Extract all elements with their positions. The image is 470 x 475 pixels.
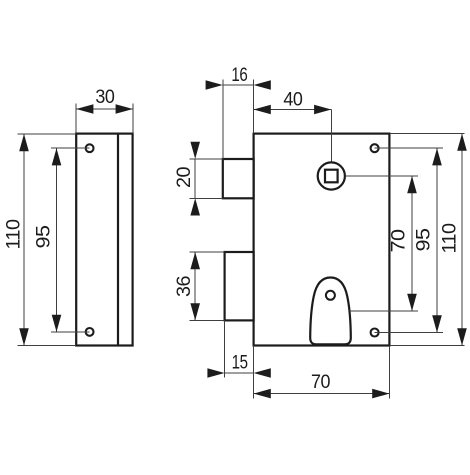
dim 16 extension lines — [223, 80, 254, 159]
dim 20 arrow top outside — [190, 142, 200, 159]
dim 110 right arrow bottom — [457, 328, 467, 345]
dim 36 arrow bottom — [190, 303, 200, 320]
dim 15 arrow left outside — [207, 368, 224, 378]
svg-text:15: 15 — [232, 353, 248, 374]
dim 16 arrow left outside — [206, 80, 223, 90]
dim 70 right arrow top — [407, 176, 417, 193]
dim 95 left line — [56, 148, 58, 332]
lock body outline — [254, 134, 390, 346]
bolt box (lower left protrusion) — [225, 252, 254, 320]
dim 70 right arrow bottom — [407, 294, 417, 311]
dim 95 left extension lines — [51, 148, 90, 332]
dim 36 arrow top — [190, 252, 200, 269]
dim 30 arrow right — [116, 104, 133, 114]
dim 40 line — [254, 109, 332, 111]
svg-text:70: 70 — [389, 230, 410, 253]
spindle center line right — [346, 175, 419, 177]
body screw hole bottom line — [375, 332, 443, 334]
svg-text:110: 110 — [4, 220, 25, 250]
dim 36 line — [194, 252, 196, 320]
faceplate outline — [76, 134, 132, 346]
dim 95 left arrow top — [52, 148, 62, 165]
dim 36 extension lines — [190, 252, 225, 320]
svg-text:70: 70 — [311, 372, 330, 393]
dim 40 arrow left — [254, 105, 271, 115]
dim 15 arrow right outside — [254, 368, 271, 378]
faceplate fold line — [117, 134, 119, 346]
dim 110 right arrow top — [457, 134, 467, 151]
dim 20 extension lines — [190, 159, 223, 198]
svg-text:16: 16 — [231, 65, 247, 86]
body screw hole bottom — [371, 329, 379, 337]
dim 110 left arrow bottom — [19, 328, 29, 345]
spindle square — [325, 170, 338, 183]
spindle leader line — [330, 110, 332, 162]
svg-text:30: 30 — [95, 87, 114, 108]
svg-text:40: 40 — [283, 90, 302, 111]
dim 110 right extension lines — [390, 134, 465, 346]
dim 95 right arrow top — [432, 148, 442, 165]
spindle hole circle — [318, 162, 345, 189]
dim 30 line — [76, 108, 133, 110]
body screw hole top — [371, 144, 379, 152]
dim 15 extension lines — [225, 320, 254, 398]
svg-text:95: 95 — [414, 229, 435, 252]
dim 16 line — [223, 84, 254, 86]
keyhole circle — [326, 291, 335, 300]
dim 70 bottom extension line right — [388, 346, 390, 399]
dim 95 left arrow bottom — [52, 315, 62, 332]
dim 16 arrow right outside — [254, 80, 271, 90]
faceplate screw hole top — [86, 144, 94, 152]
dim 40 arrow right — [314, 105, 331, 115]
dim 110 left arrow top — [19, 134, 29, 151]
faceplate screw hole bottom — [86, 328, 94, 336]
dim 70 right line — [411, 176, 413, 311]
dim 70 bottom line — [254, 393, 390, 395]
body screw hole top line — [375, 147, 443, 149]
dim 110 right line — [461, 134, 463, 346]
svg-text:20: 20 — [174, 167, 195, 188]
dim 15 line — [225, 372, 254, 374]
keyhole center line right — [350, 310, 419, 312]
dim 30 arrow left — [76, 104, 93, 114]
dim 95 right line — [436, 148, 438, 332]
latch follower box (upper left protrusion) — [223, 159, 254, 198]
svg-text:95: 95 — [34, 226, 55, 249]
dim 30 extension lines — [76, 104, 133, 134]
dim 70 bottom arrow right — [372, 389, 389, 399]
dim 70 bottom arrow left — [254, 389, 271, 399]
dim 110 left line — [23, 134, 25, 346]
dim 95 right arrow bottom — [432, 315, 442, 332]
keyhole escutcheon — [310, 278, 351, 345]
svg-text:36: 36 — [174, 276, 195, 297]
dim 110 left extension lines — [18, 134, 77, 346]
dim 20 line — [194, 159, 196, 198]
svg-text:110: 110 — [440, 224, 461, 254]
dim 20 arrow bottom outside — [190, 198, 200, 215]
